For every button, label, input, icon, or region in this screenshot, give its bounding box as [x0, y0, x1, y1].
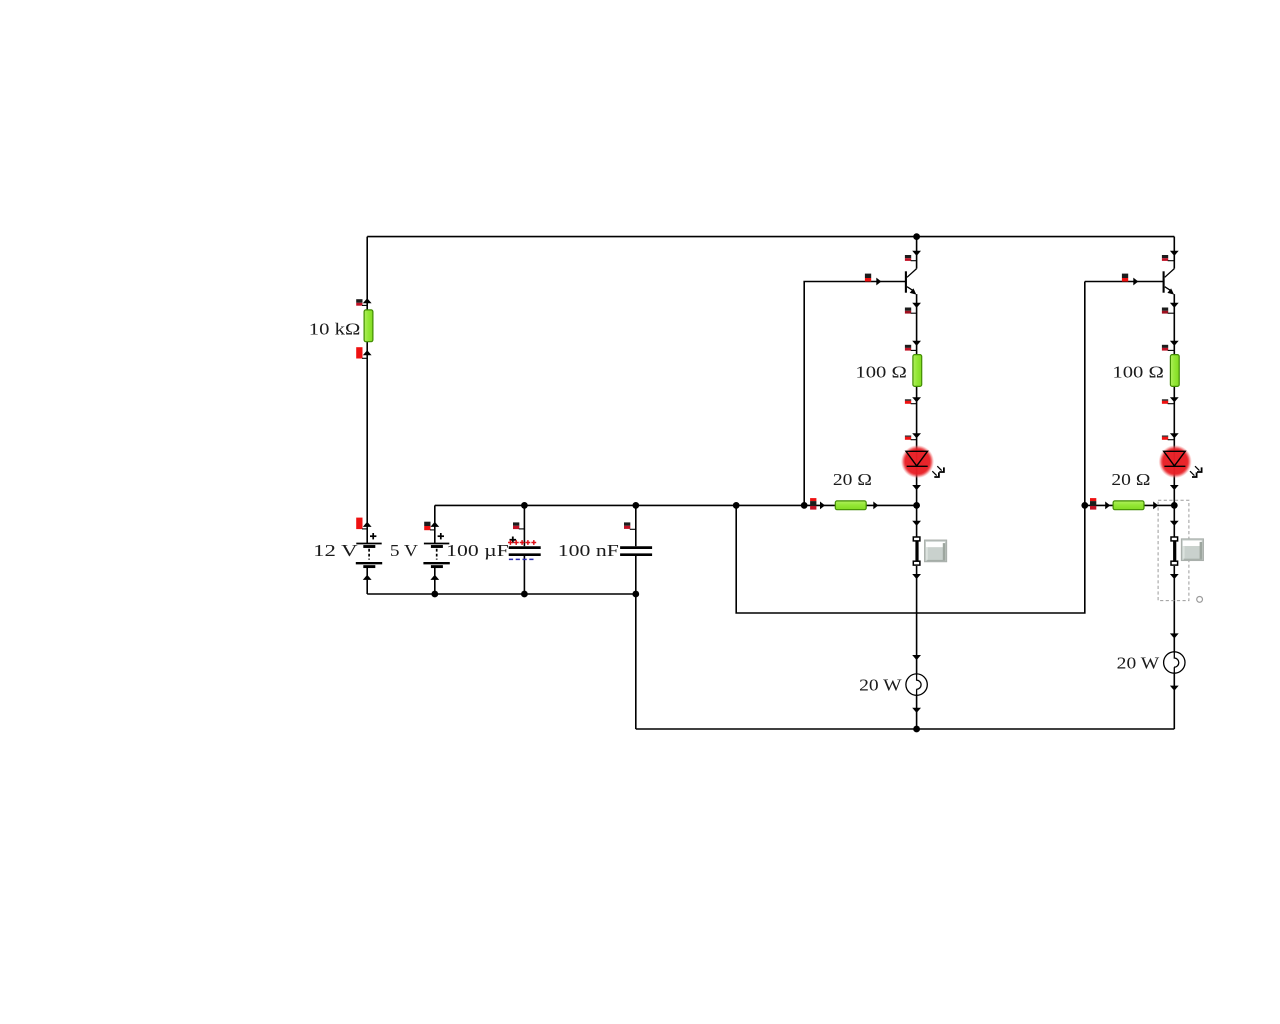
current arrow branch2 #3 — [1170, 341, 1179, 346]
wire left column upper — [366, 237, 368, 544]
current arrow branch2 #9 — [1170, 633, 1179, 638]
wire battery V2 bottom lead — [434, 568, 436, 594]
wire base Q2 — [1085, 281, 1164, 283]
wire C2 top lead — [635, 505, 637, 546]
selection box around switch S2 — [1158, 500, 1189, 600]
pin indicator R3 bottom — [1162, 399, 1174, 404]
pin indicator Q2 collector — [1162, 255, 1174, 261]
wire bottom rail left — [367, 593, 636, 595]
wire switch S1 to lamp — [916, 566, 918, 674]
current arrow branch1 #10 — [912, 708, 921, 713]
svg-text:5 V: 5 V — [390, 541, 418, 560]
node LED1-R4-S1 — [913, 502, 920, 509]
current arrow branch1 #9 — [912, 655, 921, 660]
current arrow branch1 #2 — [912, 303, 921, 308]
wire base feed Q1 — [804, 282, 906, 506]
current arrow R4 out — [873, 502, 878, 510]
push button S1 — [925, 540, 947, 562]
pin indicator V2 plus — [424, 522, 435, 531]
node mid rail / C2 top — [632, 502, 639, 509]
current arrow V2 top — [430, 522, 439, 527]
current arrow V1 bottom — [363, 575, 372, 580]
current arrow branch1 #7 — [912, 521, 921, 526]
svg-text:100 Ω: 100 Ω — [855, 363, 907, 382]
node top rail / Q1 collector — [913, 233, 920, 240]
transistor Q2 — [1164, 269, 1175, 295]
lamp L2 20W — [1164, 652, 1185, 673]
node bottom rail / C2 — [632, 591, 639, 598]
pin indicator R2 bottom — [905, 399, 917, 404]
wire C1 bottom lead — [523, 556, 525, 594]
pin indicator V1 plus — [356, 518, 367, 530]
node bottom rail / V2 — [431, 591, 438, 598]
wire lamp L1 bottom lead — [916, 695, 918, 729]
wire top rail — [367, 236, 1174, 238]
current arrow branch2 #5 — [1170, 433, 1179, 438]
transistor Q1 — [906, 269, 917, 295]
pin indicator R5 left — [1090, 498, 1096, 510]
battery V1 12V — [356, 533, 382, 567]
pin indicator C1 top — [513, 522, 524, 529]
pin indicator R3 top — [1162, 345, 1174, 351]
svg-text:100 µF: 100 µF — [446, 541, 509, 560]
node LED2-R5-S2 — [1171, 502, 1178, 509]
wire Q2 collector lead — [1173, 237, 1175, 269]
current arrow branch2 #2 — [1170, 303, 1179, 308]
LED D2 — [1159, 445, 1202, 478]
current arrow V2 bottom — [430, 575, 439, 580]
wire R5 row — [1085, 504, 1175, 506]
current arrow branch2 #8 — [1170, 574, 1179, 579]
current arrow branch2 #4 — [1170, 397, 1179, 402]
wire lamp L2 bottom lead — [1173, 673, 1175, 729]
lamp L1 20W — [906, 674, 927, 695]
wire C2 bottom lead — [635, 556, 637, 729]
current arrow branch2 #10 — [1170, 686, 1179, 691]
wire C1 top lead — [523, 505, 525, 546]
capacitor C1 100uF — [508, 537, 541, 560]
node bottom rail / lamp L1 — [913, 726, 920, 733]
current arrow R5 out — [1153, 502, 1158, 510]
node Q2 base / R5 — [1081, 502, 1088, 509]
resistor R1 10k — [364, 310, 373, 342]
node mid rail / C1 top — [521, 502, 528, 509]
current arrow branch1 #4 — [912, 397, 921, 402]
wire bottom rail right — [636, 728, 1175, 730]
pin indicator Q1 collector — [905, 255, 917, 261]
current arrow branch1 #6 — [912, 485, 921, 490]
pin indicator R4 left — [810, 498, 816, 510]
current arrow Q1 base — [876, 278, 881, 286]
current arrow R1 top — [363, 298, 372, 303]
svg-text:10 kΩ: 10 kΩ — [309, 320, 361, 339]
current arrow branch1 #3 — [912, 341, 921, 346]
node mid rail / Q2 feed — [733, 502, 740, 509]
wire Q2 emitter chain — [1173, 294, 1175, 536]
current arrow branch2 #1 — [1170, 251, 1179, 256]
pin indicator Q1 emitter — [905, 308, 917, 314]
switch S1 — [913, 537, 920, 565]
current arrow branch2 #6 — [1170, 485, 1179, 490]
pin indicator D2 anode — [1162, 436, 1174, 440]
svg-text:20 Ω: 20 Ω — [1111, 470, 1150, 489]
current arrow R4 in — [820, 502, 825, 510]
svg-text:100 nF: 100 nF — [558, 541, 619, 560]
wire Q1 collector lead — [916, 237, 918, 269]
current arrow branch2 #7 — [1170, 521, 1179, 526]
pin indicator Q2 emitter — [1162, 308, 1174, 314]
wire battery V2 top lead — [434, 505, 436, 543]
wire left column lower — [366, 568, 368, 594]
battery V2 5V — [423, 533, 449, 567]
current arrow branch1 #8 — [912, 574, 921, 579]
svg-text:100 Ω: 100 Ω — [1112, 363, 1164, 382]
pin indicator R1 bottom — [356, 347, 367, 358]
current arrow V1 top — [363, 522, 372, 527]
pin indicator C2 top — [624, 522, 636, 529]
current arrow Q2 base — [1133, 278, 1138, 286]
svg-text:20 W: 20 W — [859, 675, 902, 694]
current arrow branch1 #5 — [912, 433, 921, 438]
push button S2 — [1181, 539, 1203, 561]
current arrow R1 bottom — [363, 350, 372, 355]
svg-text:12 V: 12 V — [313, 541, 358, 560]
pin indicator D1 anode — [905, 436, 917, 440]
resistor R3 100ohm — [1170, 355, 1179, 387]
node bottom rail / C1 — [521, 591, 528, 598]
resistor R4 20ohm — [835, 501, 866, 510]
current arrow R5 in — [1105, 502, 1110, 510]
LED D1 — [901, 445, 944, 478]
pin indicator R2 top — [905, 345, 917, 351]
wire mid rail — [435, 504, 917, 506]
switch S2 — [1171, 537, 1178, 565]
svg-text:20 Ω: 20 Ω — [833, 470, 872, 489]
current arrow branch1 #1 — [912, 251, 921, 256]
pin indicator Q2 base — [1122, 274, 1128, 282]
wire switch S2 to lamp — [1173, 566, 1175, 652]
pin indicator Q1 base — [865, 274, 871, 282]
resistor R5 20ohm — [1113, 501, 1144, 510]
wire base feed Q2 — [736, 282, 1085, 614]
wire Q1 emitter chain — [916, 294, 918, 536]
resistor R2 100ohm — [913, 355, 922, 387]
selection handle — [1197, 597, 1203, 603]
svg-text:20 W: 20 W — [1117, 653, 1160, 672]
pin indicator R1 top — [356, 299, 367, 305]
capacitor C2 100nF — [620, 548, 652, 555]
node mid rail / Q1 feed — [801, 502, 808, 509]
